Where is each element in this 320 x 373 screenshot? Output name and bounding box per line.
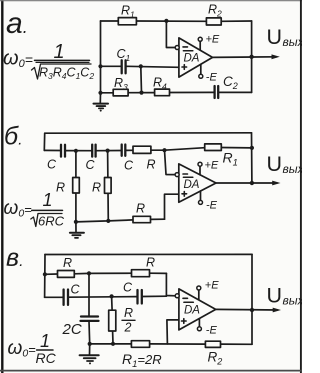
- wire: to non-inverting input: [165, 194, 179, 219]
- wire: ladder vertical 1: [75, 151, 77, 222]
- wire: corner down to inverting input: [166, 273, 175, 295]
- node: R1 right junction: [250, 146, 254, 150]
- capacitor C2: [213, 86, 215, 98]
- svg-text:-E: -E: [206, 200, 218, 212]
- node: output junction a: [249, 55, 253, 59]
- op-amp DA (circuit a): [175, 38, 212, 77]
- svg-text:C: C: [86, 158, 96, 172]
- resistor R2: [206, 18, 221, 25]
- svg-text:R: R: [92, 181, 101, 195]
- svg-text:-E: -E: [206, 72, 218, 84]
- wire: right vertical v: [251, 254, 253, 344]
- svg-text:R3R4C1C2: R3R4C1C2: [39, 66, 94, 82]
- pin -E (circuit a): [199, 64, 218, 83]
- wire: bottom row v: [90, 343, 252, 346]
- resistor R4: [155, 89, 170, 96]
- svg-text:ω0=: ω0=: [8, 338, 37, 360]
- resistor R (series, circuit b): [133, 146, 151, 153]
- wire: drop to inverting input: [165, 150, 176, 174]
- node: output junction v: [250, 308, 254, 312]
- op-amp DA (circuit v): [175, 289, 216, 330]
- node: ladder junction 1: [74, 149, 78, 153]
- node: left bottom junction: [98, 91, 102, 95]
- svg-text:R: R: [146, 256, 155, 270]
- resistor R/2: [109, 310, 116, 331]
- node: R row left junction: [43, 272, 47, 276]
- pin -E (circuit v): [197, 319, 217, 337]
- svg-text:R: R: [63, 256, 72, 270]
- label Uvyh circuit a: [267, 25, 305, 49]
- node: C1 junction: [139, 64, 143, 68]
- svg-text:+E: +E: [205, 280, 219, 292]
- label b: [4, 123, 23, 151]
- wire: top feedback: [45, 132, 252, 134]
- capacitor 2C: [81, 315, 98, 317]
- label Uvyh circuit b: [267, 152, 305, 176]
- op-amp DA (circuit b): [175, 164, 216, 202]
- wire: output circuit v with arrow: [216, 308, 281, 313]
- label Uvyh circuit v: [267, 284, 305, 308]
- svg-text:RC: RC: [36, 350, 57, 366]
- wire: C chain row: [44, 149, 164, 152]
- ground circuit a: [94, 93, 109, 112]
- wire: C row v: [45, 296, 167, 297]
- resistor R2 (circuit v): [205, 341, 220, 347]
- node: T junction to inverting input: [162, 148, 166, 152]
- svg-text:-E: -E: [206, 325, 218, 337]
- capacitor C (1st, circuit v): [62, 290, 64, 305]
- node: R1-R2 junction: [164, 19, 168, 23]
- wire: bottom row circuit b: [76, 219, 165, 222]
- wire: R/2 branch vertical: [112, 296, 113, 343]
- svg-text:+E: +E: [206, 34, 220, 46]
- svg-text:1: 1: [43, 190, 53, 210]
- wire: R row v: [45, 273, 166, 274]
- wire: top horizontal: [101, 20, 252, 22]
- node: ground junction v: [88, 342, 92, 346]
- node: R3-R4 junction: [139, 91, 143, 95]
- label a: [6, 7, 28, 40]
- svg-text:2C: 2C: [62, 321, 82, 338]
- svg-text:ω0=: ω0=: [4, 198, 33, 220]
- node: left vertical / C1 row: [98, 64, 102, 68]
- svg-text:C: C: [124, 159, 134, 173]
- capacitor C (3rd, circuit b): [121, 145, 123, 156]
- node: ladder junction 2: [106, 149, 110, 153]
- node: vertical 2 bottom: [106, 219, 110, 223]
- ground circuit v: [80, 344, 99, 365]
- pin +E (circuit a): [198, 34, 220, 51]
- ground circuit b: [70, 222, 84, 238]
- pin +E (circuit v): [197, 280, 219, 300]
- svg-text:C: C: [47, 158, 57, 172]
- pin +E (circuit b): [198, 160, 219, 175]
- capacitor C (2nd, circuit v): [136, 290, 138, 304]
- resistor R (2nd, circuit v): [132, 270, 150, 277]
- svg-text:DA: DA: [184, 179, 200, 191]
- resistor R (1st, circuit v): [58, 271, 75, 278]
- wire: bottom row R3 R4 C2: [101, 91, 252, 93]
- wire: left vertical v: [44, 255, 46, 298]
- wire: 2C branch vertical: [88, 273, 91, 344]
- svg-text:R: R: [136, 202, 145, 216]
- pin -E (circuit b): [199, 191, 218, 212]
- node: R-R junction: [87, 271, 91, 275]
- formula omega0 = 1/RC: [8, 331, 57, 366]
- svg-text:2: 2: [124, 321, 132, 335]
- node: R/2 bottom junction: [111, 342, 115, 346]
- node: ground junction b: [74, 220, 78, 224]
- svg-text:C: C: [123, 281, 133, 295]
- svg-text:DA: DA: [184, 53, 200, 65]
- resistor R (vertical 2): [105, 178, 112, 194]
- wire: drop from C1 junction to R3/R4 junction: [140, 66, 143, 92]
- svg-text:R: R: [124, 306, 133, 320]
- capacitor C (1st, circuit b): [60, 145, 62, 157]
- node: C-C junction: [110, 294, 114, 298]
- svg-text:R: R: [56, 181, 65, 195]
- wire: ladder vertical 2: [107, 151, 110, 221]
- wire: feedback R1 row: [165, 148, 252, 151]
- node: output junction b: [250, 181, 254, 185]
- formula omega0 = 1/sqrt(R3R4C1C2): [3, 41, 94, 81]
- resistor R1 (circuit b): [205, 144, 222, 151]
- capacitor C (2nd, circuit b): [91, 145, 93, 157]
- resistor R (bottom, circuit b): [133, 216, 151, 222]
- svg-text:ω0=: ω0=: [3, 48, 33, 71]
- wire: right vertical: [251, 21, 253, 92]
- wire: C1 row: [101, 66, 179, 67]
- wire: right vertical: [251, 133, 253, 183]
- wire: left vertical: [43, 133, 45, 150]
- resistor R1 (circuit v): [131, 341, 149, 348]
- wire: inverting input from top junction: [166, 21, 175, 48]
- wire: output circuit a with arrow: [213, 54, 280, 59]
- label R1=2R: [122, 351, 162, 370]
- wire: top feedback v: [45, 253, 252, 255]
- svg-text:DA: DA: [184, 305, 200, 317]
- wire: to non-inverting input v: [167, 320, 179, 344]
- resistor R (vertical 1): [73, 178, 80, 194]
- resistor R1: [118, 18, 136, 25]
- svg-text:C: C: [71, 283, 81, 297]
- wire: left vertical: [100, 21, 102, 93]
- svg-text:+E: +E: [205, 160, 219, 172]
- svg-text:6RC: 6RC: [38, 214, 65, 229]
- resistor R3: [113, 89, 128, 96]
- capacitor C1: [121, 60, 123, 73]
- formula omega0 = 1/(sqrt6 RC): [4, 190, 65, 229]
- svg-text:R: R: [147, 158, 156, 172]
- wire: output circuit b with arrow: [216, 181, 281, 186]
- svg-text:1: 1: [40, 331, 50, 351]
- label v: [6, 244, 24, 272]
